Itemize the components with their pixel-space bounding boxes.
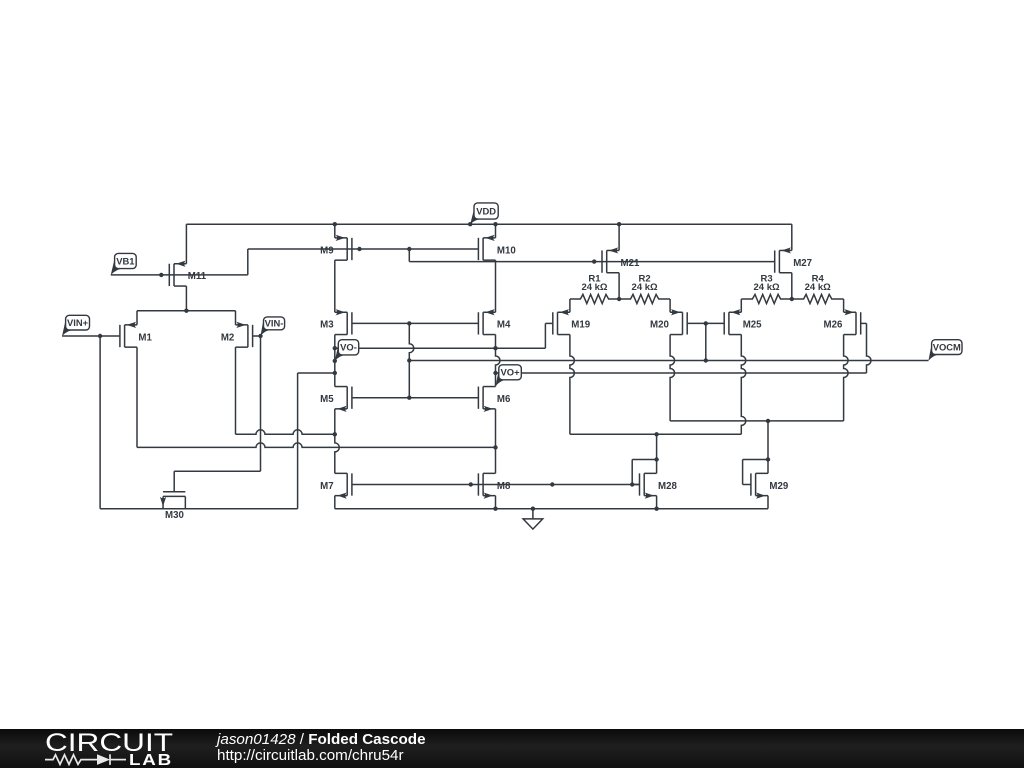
svg-text:VIN+: VIN+ [67, 317, 89, 328]
junction ground tap [531, 507, 535, 511]
wire M27 drain to R3 R4 [791, 273, 793, 299]
transistor M28 [640, 473, 678, 498]
transistor M1 [120, 322, 153, 347]
wire bottom left rail [100, 508, 298, 510]
transistor M3 [320, 309, 352, 334]
svg-text:M5: M5 [320, 394, 334, 405]
wire M2 drain down [235, 347, 237, 434]
wire VO+ line [496, 372, 867, 374]
svg-text:M2: M2 [221, 332, 234, 343]
svg-text:M27: M27 [793, 258, 812, 269]
junction VOCM rail start [407, 358, 411, 362]
wire M28 gate stub [632, 484, 639, 486]
wire M26 source to R4 [843, 299, 845, 312]
svg-text:M9: M9 [320, 245, 334, 256]
wire VIN+ to M1 gate [62, 335, 120, 337]
wire M25 gate lead [706, 322, 724, 324]
junction drain line2 [493, 445, 497, 449]
wire M20 gate lead [687, 322, 706, 324]
svg-text:24 kΩ: 24 kΩ [581, 282, 607, 293]
transistor M6 [478, 387, 511, 412]
junction VIN- M2 gate [258, 334, 262, 338]
junction M29 drain line [766, 419, 770, 423]
wire M29 bottom to rail [767, 496, 769, 509]
wire M1 source up [136, 311, 138, 325]
wire M26 gate lead [861, 322, 867, 324]
junction M28 gate [630, 482, 634, 486]
transistor M19 [553, 309, 591, 334]
wire VIN- column down to M30 gate [260, 336, 262, 471]
svg-text:M8: M8 [497, 481, 511, 492]
wire M19 gate riser [544, 323, 546, 348]
svg-text:M1: M1 [138, 332, 152, 343]
wire M26 drain down [844, 335, 849, 421]
flag VO+ [496, 365, 522, 386]
wire M30 gate horizontal [174, 470, 260, 472]
resistor R3 24k [741, 273, 792, 303]
wire M21 drain to R1 R2 [618, 273, 620, 299]
wire M10 drain to M4 source [495, 260, 497, 312]
wire M20 source to R2 [669, 299, 671, 312]
svg-text:M10: M10 [497, 245, 516, 256]
junction VO- branch [333, 371, 337, 375]
wire M2 gate to VIN- [253, 335, 261, 337]
wire M1 drain down [136, 347, 138, 447]
svg-text:24 kΩ: 24 kΩ [805, 282, 831, 293]
wire M28 drain up [656, 434, 658, 473]
transistor M8 [478, 473, 511, 498]
flag VIN- [261, 317, 285, 336]
wire VIN+ column down [99, 336, 101, 509]
svg-text:M21: M21 [621, 258, 640, 269]
wire M7 source up [335, 434, 340, 473]
footer url [217, 747, 404, 764]
junction M28 diode [654, 457, 658, 461]
flag VIN+ [62, 315, 89, 336]
transistor M10 [478, 235, 515, 260]
wire VO- branch left [298, 372, 335, 374]
wire M29 diode top [743, 459, 768, 461]
resistor R4 24k [792, 273, 844, 303]
junction R3 R4 [790, 297, 794, 301]
resistor R2 24k [619, 273, 670, 303]
junction M7 M8 wire [550, 482, 554, 486]
junction rail M10 [493, 222, 497, 226]
wire M28 bottom to rail [656, 496, 658, 509]
wire M19 source to R1 [569, 299, 571, 312]
wire drain line 2 [137, 443, 496, 448]
wire M19 M25 drain line [570, 433, 741, 435]
wire M20 drain down [670, 335, 675, 421]
svg-text:VOCM: VOCM [933, 341, 961, 352]
wire M3 M4 gate wire [352, 322, 479, 324]
resistor R1 24k [570, 273, 619, 303]
wire M28 diode riser [631, 460, 633, 485]
wire folded node column [297, 373, 299, 509]
junction M21 gate [592, 259, 596, 263]
svg-text:M29: M29 [769, 481, 788, 492]
wire bias through M21 gate to M27 gate [409, 261, 774, 263]
junction rail VDD [468, 222, 472, 226]
wire bottom rail [335, 508, 768, 510]
junction M20 M25 gates [704, 321, 708, 325]
svg-text:M28: M28 [658, 481, 677, 492]
svg-text:M20: M20 [650, 320, 669, 331]
junction VO+ node [493, 371, 497, 375]
wire M29 drain up [767, 421, 769, 473]
wire M21 source to rail [618, 224, 620, 250]
svg-text:M11: M11 [188, 271, 207, 282]
wire bias drop at node [408, 249, 410, 262]
junction M29 diode [766, 457, 770, 461]
svg-text:VB1: VB1 [116, 255, 134, 266]
wire M7 bottom to rail [334, 496, 336, 509]
svg-text:M3: M3 [320, 320, 334, 331]
transistor M4 [478, 309, 511, 334]
junction rail M9 [333, 222, 337, 226]
transistor M30 [160, 492, 185, 522]
wire M4 drain to M6 source [496, 335, 501, 387]
svg-text:M6: M6 [497, 394, 511, 405]
wire M3 drain to M5 source [334, 335, 336, 387]
svg-text:VO-: VO- [340, 342, 357, 353]
transistor M20 [650, 309, 687, 334]
svg-text:LAB: LAB [129, 752, 173, 768]
wire M28 diode top [632, 459, 656, 461]
junction M4 drain [493, 346, 497, 350]
junction rail M21 [617, 222, 621, 226]
wire drain line 1 [236, 430, 335, 435]
svg-text:24 kΩ: 24 kΩ [632, 282, 658, 293]
wire VO- to M19 gate [335, 347, 546, 349]
wire M25 source to R3 [740, 299, 742, 312]
wire VB1 through M11 gate to bias riser [111, 274, 248, 276]
junction M28 ground [654, 507, 658, 511]
transistor M27 [775, 247, 812, 272]
svg-text:M7: M7 [320, 481, 333, 492]
junction VCM tap [704, 358, 708, 362]
transistor M25 [724, 309, 762, 334]
junction M3 M4 gates [407, 321, 411, 325]
flag VO- [335, 340, 359, 361]
wire M11 source to rail [185, 224, 187, 264]
wire M8 bottom to rail [495, 496, 497, 509]
wire M20 M25 gate drop [705, 323, 707, 360]
svg-text:24 kΩ: 24 kΩ [753, 282, 779, 293]
flag VOCM [928, 340, 962, 361]
wire M9 drain to M3 source [334, 260, 336, 312]
CircuitLab logo [40, 728, 190, 768]
wire input pair source rail [137, 310, 236, 312]
wire M30 gate lead [173, 471, 175, 492]
wire M20 M26 drain line [670, 420, 844, 422]
wire VOCM rail [409, 360, 928, 362]
wire M5 M6 gate wire [352, 397, 479, 399]
wire M25 drain down [741, 335, 746, 435]
transistor M11 [169, 261, 206, 286]
junction bias tee [407, 247, 411, 251]
svg-text:M19: M19 [571, 320, 590, 331]
junction VIN+ M1 gate [98, 334, 102, 338]
wire M6 drain down [495, 409, 497, 474]
junction M9 gate [357, 247, 361, 251]
transistor M21 [602, 247, 640, 272]
wire M10 source to rail [495, 224, 497, 238]
wire M5 drain down [334, 409, 336, 434]
wire bias riser up [247, 249, 249, 275]
wire M11 drain to input pair sources [185, 286, 187, 311]
transistor M5 [320, 387, 352, 412]
transistor M29 [751, 473, 789, 498]
wire M29 gate stub [743, 484, 751, 486]
svg-text:M30: M30 [165, 510, 184, 521]
wire bias vertical [409, 323, 414, 397]
wire M2 source up [235, 311, 237, 325]
junction M8 ground [493, 507, 497, 511]
junction M5 M6 gates [407, 396, 411, 400]
svg-text:VIN-: VIN- [265, 318, 284, 329]
junction VO- flag [333, 359, 337, 363]
junction R1 R2 [617, 297, 621, 301]
wire M19 drain down [570, 335, 575, 435]
footer title [217, 731, 426, 748]
wire M27 source to rail [791, 224, 793, 250]
wire VDD rail [186, 223, 791, 225]
junction pair sources [184, 309, 188, 313]
svg-text:M26: M26 [824, 320, 843, 331]
wire M9 source to rail [334, 224, 336, 238]
junction VO- node [333, 346, 337, 350]
svg-text:VDD: VDD [476, 205, 496, 216]
junction M28 drain line [654, 432, 658, 436]
svg-text:M25: M25 [743, 320, 762, 331]
transistor M26 [824, 309, 861, 334]
junction VB1 wire [159, 273, 163, 277]
flag VDD [470, 203, 498, 224]
wire M26 gate drop to VO+ [867, 323, 872, 373]
ground [523, 509, 543, 529]
transistor M2 [221, 322, 253, 347]
wire bias through M9 gate to M10 gate [248, 248, 479, 250]
junction drain line1 [333, 432, 337, 436]
svg-text:VO+: VO+ [501, 367, 521, 378]
wire M19 gate lead [545, 322, 552, 324]
wire M29 diode riser [742, 460, 744, 485]
transistor M9 [320, 235, 352, 260]
transistor M7 [320, 473, 352, 498]
junction M8 gate [469, 482, 473, 486]
wire M7 M8 M28 gate wire [352, 484, 640, 486]
flag VB1 [111, 253, 136, 275]
svg-text:M4: M4 [497, 320, 511, 331]
footer bar [0, 729, 1024, 768]
